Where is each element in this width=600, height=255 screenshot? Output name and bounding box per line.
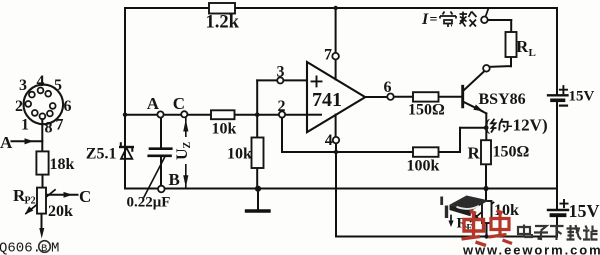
svg-text:2: 2	[15, 98, 23, 115]
svg-text:B: B	[169, 170, 180, 189]
svg-text:I: I	[421, 11, 429, 28]
svg-text:3: 3	[277, 64, 285, 81]
svg-text:7: 7	[56, 117, 64, 134]
svg-text:8: 8	[45, 120, 53, 137]
svg-text:6: 6	[64, 98, 72, 115]
svg-text:R: R	[516, 37, 529, 56]
svg-text:6: 6	[384, 79, 392, 96]
svg-text:1: 1	[21, 117, 29, 134]
svg-text:A: A	[147, 94, 160, 113]
svg-text:7: 7	[324, 47, 332, 64]
svg-text:A: A	[0, 133, 13, 152]
svg-text:10k: 10k	[212, 121, 237, 138]
svg-text:1.2k: 1.2k	[206, 12, 240, 32]
svg-text:C: C	[173, 94, 185, 113]
svg-text:150Ω: 150Ω	[408, 102, 445, 119]
svg-text:M: M	[51, 241, 59, 255]
svg-text:0.22μF: 0.22μF	[127, 195, 171, 211]
svg-text:20k: 20k	[48, 203, 73, 220]
svg-text:P2: P2	[25, 196, 36, 207]
svg-text:15V: 15V	[569, 201, 600, 221]
svg-text:-12V): -12V)	[507, 116, 548, 135]
svg-text:150Ω: 150Ω	[493, 144, 530, 161]
svg-text:18k: 18k	[50, 156, 75, 173]
svg-text:Z5.1: Z5.1	[86, 145, 117, 162]
svg-text:2: 2	[278, 98, 286, 115]
svg-text:100k: 100k	[407, 158, 440, 175]
svg-text:10k: 10k	[227, 146, 252, 163]
svg-text:15V: 15V	[569, 89, 595, 105]
svg-text:4: 4	[37, 73, 45, 90]
svg-text:741: 741	[312, 89, 342, 111]
svg-text:C: C	[79, 187, 91, 206]
svg-text:R: R	[468, 144, 481, 163]
svg-text:Q606.: Q606.	[0, 241, 41, 255]
svg-text:=: =	[430, 13, 438, 28]
svg-text:B: B	[41, 243, 47, 255]
svg-text:3: 3	[19, 77, 27, 94]
svg-text:L: L	[529, 47, 536, 59]
svg-text:(: (	[485, 116, 491, 135]
svg-text:4: 4	[325, 132, 333, 149]
svg-text:U: U	[174, 148, 191, 160]
svg-text:BSY86: BSY86	[479, 91, 526, 108]
svg-text:www.eeworm.com: www.eeworm.com	[462, 243, 600, 255]
svg-text:Z: Z	[182, 142, 193, 149]
svg-text:5: 5	[54, 77, 62, 94]
